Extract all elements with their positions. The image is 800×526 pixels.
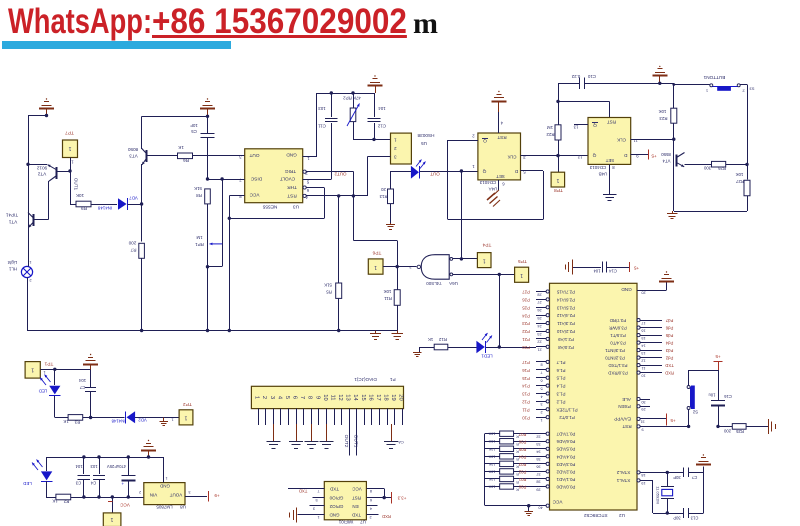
svg-text:XTAL1: XTAL1	[616, 478, 630, 483]
svg-text:OUT1: OUT1	[353, 435, 359, 448]
svg-text:Pd7: Pd7	[665, 318, 673, 323]
wire	[28, 164, 47, 166]
svg-text:R: R	[516, 465, 519, 469]
wire GND1	[303, 156, 317, 158]
pin P1.6	[536, 369, 546, 371]
wire	[135, 417, 179, 419]
svg-text:10K: 10K	[736, 172, 744, 177]
svg-text:1: 1	[68, 145, 71, 151]
diode VD7	[118, 198, 127, 210]
svg-text:LED: LED	[23, 481, 32, 486]
svg-text:CLK: CLK	[507, 154, 517, 159]
svg-text:10F: 10F	[190, 123, 198, 128]
svg-text:NE555: NE555	[262, 203, 277, 209]
svg-text:R7: R7	[130, 248, 136, 253]
svg-text:6: 6	[540, 378, 542, 382]
test point TP4	[477, 253, 491, 268]
svg-text:C12: C12	[377, 123, 386, 128]
wire	[420, 171, 478, 173]
svg-text:3: 3	[409, 265, 412, 270]
wire	[229, 218, 324, 220]
svg-text:VCC: VCC	[119, 503, 129, 508]
svg-text:R2: R2	[63, 499, 69, 504]
IC U5 HS0038 IR receiver	[391, 133, 412, 164]
header cyan bar	[2, 41, 231, 49]
svg-text:P0.5/AD5: P0.5/AD5	[556, 447, 575, 452]
pin P3.4/T0	[637, 341, 640, 344]
header whatsapp text	[8, 2, 152, 42]
svg-text:35: 35	[536, 457, 540, 461]
svg-text:R11: R11	[384, 296, 392, 301]
ground	[652, 75, 667, 77]
svg-text:1: 1	[43, 370, 46, 375]
ground	[273, 424, 275, 441]
resistor R22	[558, 83, 560, 125]
wire gate output	[397, 266, 417, 268]
svg-text:P2.1/A9: P2.1/A9	[558, 337, 574, 342]
svg-text:WIFI01: WIFI01	[338, 519, 353, 524]
wire VCC	[229, 195, 244, 197]
wire	[27, 278, 29, 331]
svg-text:U6A: U6A	[449, 281, 458, 286]
svg-text:10K: 10K	[488, 447, 495, 451]
svg-text:P1.5: P1.5	[556, 376, 566, 381]
wire GND	[298, 514, 325, 516]
svg-text:8050: 8050	[127, 147, 138, 152]
wire gate input2	[453, 274, 515, 276]
svg-text:2: 2	[139, 490, 141, 494]
svg-text:R26: R26	[717, 166, 725, 171]
svg-text:RST: RST	[607, 120, 616, 125]
svg-text:P3.6/WR: P3.6/WR	[609, 326, 627, 331]
IC U8 regulator LM7805	[144, 483, 185, 505]
ground	[659, 281, 674, 283]
svg-text:LED1: LED1	[481, 353, 493, 358]
wire VOUT +9 tag	[185, 496, 207, 498]
svg-text:10: 10	[322, 394, 328, 400]
svg-text:1: 1	[31, 367, 34, 373]
svg-text:S2: S2	[692, 409, 698, 414]
svg-text:19: 19	[390, 394, 396, 400]
svg-text:1: 1	[184, 415, 187, 421]
svg-text:21: 21	[537, 348, 541, 352]
svg-text:1: 1	[71, 159, 74, 164]
svg-text:10K: 10K	[659, 109, 667, 114]
capacitor C14 +5 decoupling	[572, 267, 601, 269]
svg-text:P0.7/AD7: P0.7/AD7	[556, 432, 575, 437]
pin P2.3/A11	[536, 323, 546, 325]
svg-text:C7: C7	[79, 385, 85, 390]
svg-text:2: 2	[394, 146, 397, 151]
svg-text:P14: P14	[522, 384, 530, 389]
svg-text:5: 5	[315, 498, 317, 502]
test point TP2	[179, 410, 193, 425]
gate U6A 74LS00	[421, 255, 449, 280]
svg-text:6: 6	[370, 498, 372, 502]
svg-text:4: 4	[500, 120, 503, 125]
transistor VT2	[56, 167, 58, 179]
svg-text:P25: P25	[522, 305, 530, 310]
svg-text:+5: +5	[715, 354, 721, 359]
svg-text:D: D	[624, 152, 628, 158]
svg-text:9012: 9012	[36, 166, 47, 171]
svg-text:P2.3/A11: P2.3/A11	[557, 321, 575, 326]
svg-text:P13: P13	[522, 392, 530, 397]
test point TP8	[558, 156, 560, 173]
svg-text:12: 12	[337, 394, 343, 400]
wire	[674, 211, 747, 213]
svg-text:200: 200	[128, 241, 136, 246]
potentiometer RP1	[222, 179, 224, 244]
svg-text:HL1: HL1	[8, 266, 17, 271]
pin P3.1/TXD	[637, 364, 640, 367]
svg-text:SET: SET	[605, 158, 614, 163]
pin P1.0/T2	[536, 417, 546, 419]
svg-text:1: 1	[520, 272, 523, 278]
wire RXD net	[366, 514, 378, 516]
capacitor C6 electrolytic	[128, 457, 130, 475]
svg-text:TXD: TXD	[665, 363, 674, 368]
capacitor C7	[90, 369, 92, 388]
ground	[419, 347, 421, 353]
svg-text:11: 11	[329, 394, 335, 400]
svg-text:R25: R25	[735, 429, 743, 434]
svg-text:R3: R3	[74, 419, 80, 424]
svg-text:TP2: TP2	[183, 401, 192, 407]
svg-text:8: 8	[370, 489, 372, 493]
pin P2.6/A14	[536, 299, 546, 301]
ground	[768, 419, 770, 434]
svg-text:P3.7/RD: P3.7/RD	[610, 318, 627, 323]
ground	[672, 211, 674, 214]
svg-text:P1.1/T2EX: P1.1/T2EX	[556, 407, 577, 412]
wire TXD net	[288, 488, 324, 490]
svg-text:P11: P11	[522, 407, 530, 412]
svg-text:TP7: TP7	[65, 129, 74, 135]
svg-text:300: 300	[703, 165, 711, 170]
resistor R23	[673, 83, 675, 108]
svg-text:P20: P20	[522, 345, 530, 350]
svg-text:19: 19	[641, 481, 645, 485]
svg-text:2: 2	[472, 133, 475, 138]
svg-text:CLK: CLK	[616, 138, 626, 143]
svg-text:CD4013: CD4013	[589, 165, 606, 170]
test point TP1	[25, 362, 40, 379]
svg-text:RST: RST	[287, 194, 297, 199]
svg-text:1K: 1K	[52, 499, 57, 504]
wire	[207, 204, 209, 331]
svg-text:P1: P1	[390, 377, 396, 382]
test point TP5	[515, 267, 529, 282]
pin P3.2/INT0	[637, 356, 640, 359]
potentiometer RP2	[353, 93, 355, 108]
resistor R8	[205, 189, 211, 204]
svg-text:3: 3	[540, 402, 542, 406]
svg-text:Pd3: Pd3	[665, 348, 673, 353]
transistor VT1	[33, 214, 35, 226]
svg-text:VOUT: VOUT	[170, 492, 183, 497]
svg-text:RST: RST	[352, 496, 361, 501]
svg-text:7: 7	[299, 396, 305, 399]
svg-text:TP8: TP8	[554, 187, 563, 193]
svg-text:13: 13	[641, 351, 645, 355]
svg-text:U2: U2	[619, 512, 625, 518]
svg-text:RP1: RP1	[195, 242, 204, 247]
svg-text:GND: GND	[329, 513, 340, 518]
svg-text:10: 10	[641, 373, 645, 377]
svg-text:HS0038: HS0038	[417, 133, 434, 138]
svg-text:51K: 51K	[194, 186, 202, 191]
wire VCC bus	[484, 434, 486, 506]
svg-text:Q: Q	[482, 168, 486, 174]
pin P0.7/AD7 with pullup resistor	[485, 433, 500, 435]
svg-text:17: 17	[641, 321, 645, 325]
wire CLK	[521, 155, 589, 157]
capacitor C11	[331, 93, 333, 117]
IC U7 WIFI module	[324, 482, 366, 520]
svg-text:VCC: VCC	[552, 499, 563, 504]
svg-text:10K: 10K	[488, 469, 495, 473]
svg-text:5: 5	[306, 180, 309, 185]
capacitor C12	[374, 93, 376, 117]
svg-text:1: 1	[374, 264, 377, 270]
svg-text:+3.3: +3.3	[397, 496, 406, 501]
pin P2.5/A13	[536, 307, 546, 309]
wire	[747, 85, 749, 165]
connector P1 20-pin	[251, 386, 403, 408]
svg-text:P24: P24	[522, 313, 530, 318]
svg-text:P1.2: P1.2	[556, 399, 566, 404]
svg-text:16: 16	[641, 328, 645, 332]
svg-text:P2.7/A15: P2.7/A15	[556, 289, 575, 294]
svg-text:P22: P22	[522, 329, 530, 334]
pin P0.4/AD4 with pullup resistor	[485, 456, 500, 458]
pin P0.3/AD3 with pullup resistor	[485, 463, 500, 465]
svg-text:OUT: OUT	[249, 153, 259, 158]
svg-text:Q: Q	[592, 152, 596, 158]
svg-text:TRIG: TRIG	[285, 169, 297, 174]
svg-text:GND: GND	[159, 483, 170, 488]
svg-text:16: 16	[367, 394, 373, 400]
svg-text:10u: 10u	[708, 392, 716, 397]
ground	[391, 424, 393, 441]
svg-text:CD4013: CD4013	[479, 180, 496, 185]
svg-text:8: 8	[612, 165, 615, 170]
svg-text:P26: P26	[522, 298, 530, 303]
IC U4B CD4013 flip-flop	[588, 118, 631, 165]
svg-text:OUT: OUT	[430, 172, 440, 177]
svg-text:20: 20	[398, 394, 404, 400]
svg-text:28: 28	[537, 292, 541, 296]
test point TP3	[103, 513, 121, 526]
ground tag	[163, 418, 165, 422]
svg-text:104: 104	[593, 269, 601, 274]
svg-text:25: 25	[537, 316, 541, 320]
pin P3.5/T1	[637, 334, 640, 337]
pin P1.1/T2EX	[536, 409, 546, 411]
svg-text:+5: +5	[633, 266, 639, 271]
svg-text:7: 7	[540, 371, 542, 375]
svg-text:104: 104	[78, 378, 86, 383]
svg-text:R: R	[516, 457, 519, 461]
svg-text:P3.4/T0: P3.4/T0	[610, 341, 626, 346]
svg-text:10K: 10K	[488, 484, 495, 488]
pin P1.2	[536, 401, 546, 403]
svg-text:1: 1	[110, 516, 113, 522]
svg-text:THR: THR	[287, 185, 297, 190]
svg-text:P0.0/AD0: P0.0/AD0	[556, 484, 575, 489]
svg-text:27: 27	[537, 300, 541, 304]
svg-text:U4A: U4A	[489, 186, 498, 191]
svg-text:2: 2	[742, 89, 744, 94]
IC U2 STC89C52 MCU	[550, 283, 638, 510]
wire	[40, 369, 90, 371]
svg-text:P27: P27	[522, 290, 530, 295]
svg-text:10K: 10K	[488, 477, 495, 481]
resistor R13	[390, 171, 392, 189]
svg-text:U8: U8	[180, 505, 186, 510]
svg-text:3: 3	[188, 490, 190, 494]
svg-text:R8: R8	[196, 193, 202, 198]
svg-text:51K: 51K	[324, 282, 332, 287]
svg-text:12: 12	[577, 154, 582, 159]
pin XTAL2	[637, 471, 640, 474]
svg-text:2: 2	[369, 515, 371, 519]
capacitor C12b	[667, 472, 683, 474]
svg-text:U7: U7	[360, 519, 366, 524]
svg-text:1M: 1M	[196, 235, 202, 240]
wire	[142, 116, 208, 118]
pin P1.3	[536, 393, 546, 395]
resistor R7	[139, 243, 145, 258]
svg-text:22: 22	[537, 340, 541, 344]
LED LED1	[476, 341, 484, 353]
svg-text:10K: 10K	[75, 193, 84, 198]
resistor R11	[397, 267, 399, 290]
svg-text:5: 5	[540, 386, 542, 390]
svg-text:U3: U3	[293, 203, 299, 209]
svg-text:103: 103	[318, 106, 326, 111]
pin P2.7/A15	[536, 291, 546, 293]
svg-text:VCC: VCC	[249, 193, 260, 198]
svg-text:32: 32	[536, 434, 540, 438]
svg-text:P16: P16	[522, 368, 530, 373]
svg-text:2: 2	[540, 410, 542, 414]
wire	[128, 204, 142, 206]
svg-text:9: 9	[314, 396, 320, 399]
svg-text:1: 1	[706, 89, 708, 94]
svg-text:Light: Light	[7, 260, 17, 265]
wire	[689, 370, 718, 372]
svg-text:8: 8	[540, 363, 542, 367]
svg-text:RST: RST	[497, 135, 506, 140]
wire gate input1	[453, 258, 478, 260]
ground	[375, 331, 377, 334]
svg-text:C3: C3	[75, 480, 81, 485]
wire pin3	[367, 156, 390, 158]
svg-text:10K: 10K	[488, 462, 495, 466]
svg-text:R23: R23	[659, 116, 668, 121]
pin P0.5/AD5 with pullup resistor	[485, 448, 500, 450]
svg-text:R9: R9	[81, 206, 87, 211]
ground	[397, 331, 399, 334]
wire CVOLT	[303, 179, 332, 181]
wire GND pin	[637, 290, 666, 292]
svg-text:P3.0/RXD: P3.0/RXD	[608, 371, 628, 376]
svg-text:TXD: TXD	[329, 487, 339, 492]
svg-text:P0.4/AD4: P0.4/AD4	[556, 454, 575, 459]
LED VD8 infrared	[391, 171, 411, 173]
svg-text:12: 12	[641, 358, 645, 362]
power +5 tag D pin	[631, 154, 648, 156]
svg-text:0.22: 0.22	[571, 74, 580, 79]
svg-text:P12: P12	[522, 400, 530, 405]
pin XTAL1	[637, 479, 640, 482]
resistor R27	[747, 164, 749, 179]
svg-text:6: 6	[306, 188, 309, 193]
svg-text:STC89C52: STC89C52	[584, 512, 608, 518]
svg-text:EA/VPP: EA/VPP	[614, 417, 631, 422]
pin P0.1/AD1 with pullup resistor	[485, 478, 500, 480]
svg-text:1: 1	[254, 396, 260, 399]
svg-text:31: 31	[640, 420, 644, 424]
ground	[491, 101, 506, 103]
svg-text:TXD: TXD	[351, 513, 361, 518]
svg-text:200: 200	[723, 428, 731, 433]
pin ALE	[637, 397, 640, 400]
svg-text:38: 38	[536, 480, 540, 484]
svg-text:P23: P23	[522, 321, 530, 326]
svg-text:Pd5: Pd5	[665, 333, 673, 338]
svg-text:20: 20	[641, 291, 645, 295]
svg-text:CVOLT: CVOLT	[280, 177, 295, 182]
svg-text:P1.3: P1.3	[556, 391, 566, 396]
svg-text:13: 13	[345, 394, 351, 400]
pin P0.2/AD2 with pullup resistor	[485, 471, 500, 473]
svg-text:CA: CA	[398, 440, 404, 445]
svg-text:18: 18	[641, 473, 645, 477]
svg-text:2: 2	[29, 278, 32, 283]
svg-text:Pd2: Pd2	[665, 356, 673, 361]
capacitor C5	[207, 116, 209, 134]
svg-text:PSEN: PSEN	[618, 404, 631, 409]
svg-text:R27: R27	[735, 179, 744, 184]
pin P2.1/A9	[536, 338, 546, 340]
wire	[28, 212, 30, 267]
svg-text:P10: P10	[522, 415, 530, 420]
svg-text:P0.3/AD3: P0.3/AD3	[556, 462, 575, 467]
resistor R25	[718, 426, 732, 428]
svg-text:+: +	[121, 481, 124, 486]
svg-text:1: 1	[472, 164, 475, 169]
svg-text:10K: 10K	[488, 432, 495, 436]
svg-text:14: 14	[352, 394, 358, 401]
pin P1.7	[536, 361, 546, 363]
capacitor C4	[99, 457, 101, 474]
switch S2 reset button	[687, 386, 690, 389]
svg-text:P17: P17	[522, 360, 530, 365]
svg-text:TP6: TP6	[372, 249, 381, 255]
ground	[311, 424, 313, 441]
wire OUT1	[70, 158, 72, 205]
test point TP6	[368, 259, 383, 274]
svg-text:VT4: VT4	[662, 158, 671, 163]
svg-text:7: 7	[317, 489, 319, 493]
svg-text:C4: C4	[90, 480, 96, 485]
svg-text:TXD: TXD	[299, 489, 308, 494]
svg-text:P2.0/A8: P2.0/A8	[558, 345, 574, 350]
svg-text:10K: 10K	[384, 289, 392, 294]
